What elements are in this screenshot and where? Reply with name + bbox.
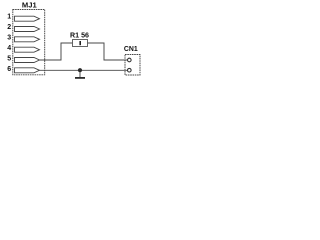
svg-text:MJ1: MJ1 (22, 0, 38, 9)
svg-text:1: 1 (7, 13, 11, 20)
svg-text:6: 6 (7, 66, 11, 73)
svg-text:CN1: CN1 (124, 46, 138, 53)
svg-text:5: 5 (7, 56, 11, 63)
svg-text:2: 2 (7, 24, 11, 31)
svg-text:3: 3 (7, 35, 11, 42)
svg-text:R1 56: R1 56 (70, 31, 89, 39)
svg-text:4: 4 (7, 45, 11, 52)
